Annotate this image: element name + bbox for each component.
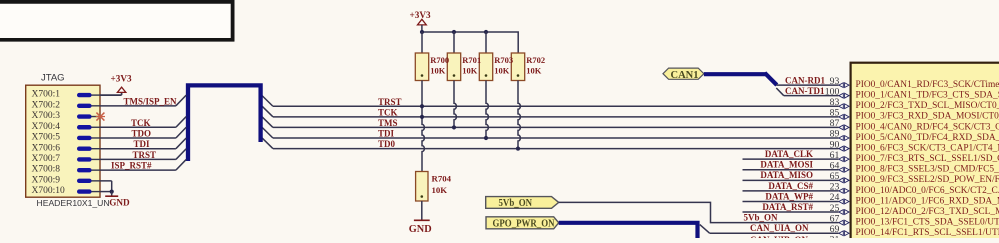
svg-text:PIO0_1/CAN1_TD/FC3_CTS_SDA_SSE: PIO0_1/CAN1_TD/FC3_CTS_SDA_SSEL0 bbox=[856, 91, 999, 101]
svg-text:+3V3: +3V3 bbox=[111, 74, 132, 84]
svg-text:X700:6: X700:6 bbox=[32, 143, 61, 153]
svg-text:21: 21 bbox=[830, 235, 840, 239]
svg-text:PIO0_11/ADC0_1/FC6_RXD_SDA_MOS: PIO0_11/ADC0_1/FC6_RXD_SDA_MOSI bbox=[856, 196, 999, 206]
svg-text:PIO0_10/ADC0_0/FC6_SCK/CT2_CAP: PIO0_10/ADC0_0/FC6_SCK/CT2_CAP0 bbox=[856, 186, 999, 196]
svg-text:PIO0_6/FC3_SCK/CT3_CAP1/CT4_MA: PIO0_6/FC3_SCK/CT3_CAP1/CT4_MAT0 bbox=[856, 143, 999, 153]
svg-text:TDI: TDI bbox=[134, 139, 151, 149]
svg-text:X700:7: X700:7 bbox=[32, 154, 61, 164]
svg-text:CAN-TD1: CAN-TD1 bbox=[785, 86, 825, 96]
svg-text:GND: GND bbox=[109, 198, 130, 208]
svg-text:DATA_RST#: DATA_RST# bbox=[762, 202, 813, 212]
svg-text:X700:10: X700:10 bbox=[32, 186, 66, 196]
svg-text:10K: 10K bbox=[430, 66, 446, 76]
svg-text:GPO_PWR_ON: GPO_PWR_ON bbox=[493, 219, 556, 230]
svg-text:CAN1: CAN1 bbox=[671, 70, 699, 81]
svg-text:CAN_UIB_ON: CAN_UIB_ON bbox=[750, 235, 809, 238]
svg-text:TDI: TDI bbox=[378, 129, 395, 139]
svg-text:TRST: TRST bbox=[133, 150, 157, 160]
svg-text:X700:1: X700:1 bbox=[32, 90, 61, 100]
svg-text:X700:9: X700:9 bbox=[32, 175, 61, 185]
svg-text:HEADER10X1_UN: HEADER10X1_UN bbox=[37, 198, 110, 208]
svg-text:R702: R702 bbox=[526, 55, 545, 65]
svg-text:ISP_RST#: ISP_RST# bbox=[111, 161, 152, 171]
svg-text:DATA_CLK: DATA_CLK bbox=[765, 149, 813, 159]
svg-text:PIO0_9/FC3_SSEL2/SD_POW_EN/FC5: PIO0_9/FC3_SSEL2/SD_POW_EN/FC5_T bbox=[856, 175, 999, 185]
svg-text:PIO0_0/CAN1_RD/FC3_SCK/CTimer0: PIO0_0/CAN1_RD/FC3_SCK/CTimer0_C bbox=[856, 80, 999, 90]
svg-text:CAN-RD1: CAN-RD1 bbox=[785, 75, 825, 85]
svg-text:X700:4: X700:4 bbox=[32, 122, 61, 132]
svg-text:X700:3: X700:3 bbox=[32, 111, 61, 121]
svg-text:X700:8: X700:8 bbox=[32, 165, 61, 175]
svg-text:TMS/ISP_EN: TMS/ISP_EN bbox=[124, 96, 178, 106]
svg-text:10K: 10K bbox=[462, 66, 478, 76]
svg-text:R701: R701 bbox=[462, 55, 481, 65]
svg-text:DATA_MISO: DATA_MISO bbox=[760, 170, 813, 180]
svg-text:PIO0_2/FC3_TXD_SCL_MISO/CT0_MA: PIO0_2/FC3_TXD_SCL_MISO/CT0_MAT0 bbox=[856, 101, 999, 111]
svg-text:JTAG: JTAG bbox=[41, 72, 65, 83]
svg-text:PIO0_4/CAN0_RD/FC4_SCK/CT3_CAP: PIO0_4/CAN0_RD/FC4_SCK/CT3_CAP0 bbox=[856, 122, 999, 132]
svg-text:R704: R704 bbox=[432, 173, 452, 183]
svg-text:TRST: TRST bbox=[378, 97, 402, 107]
svg-text:X700:5: X700:5 bbox=[32, 133, 61, 143]
svg-text:5Vb_ON: 5Vb_ON bbox=[499, 198, 533, 209]
svg-text:X700:2: X700:2 bbox=[32, 100, 61, 110]
svg-text:5Vb_ON: 5Vb_ON bbox=[744, 213, 779, 223]
svg-text:10K: 10K bbox=[526, 66, 542, 76]
svg-text:PIO0_7/FC3_RTS_SCL_SSEL1/SD_CL: PIO0_7/FC3_RTS_SCL_SSEL1/SD_CLK bbox=[856, 154, 999, 164]
svg-text:DATA_CS#: DATA_CS# bbox=[768, 181, 813, 191]
svg-text:+3V3: +3V3 bbox=[410, 10, 431, 20]
svg-text:PIO0_8/FC3_SSEL3/SD_CMD/FC5_RX: PIO0_8/FC3_SSEL3/SD_CMD/FC5_RXD bbox=[856, 165, 999, 175]
svg-text:TD0: TD0 bbox=[378, 139, 396, 149]
svg-text:CAN_UIA_ON: CAN_UIA_ON bbox=[750, 223, 809, 233]
svg-text:GND: GND bbox=[409, 224, 432, 235]
svg-text:PIO0_5/CAN0_TD/FC4_RXD_SDA_MOS: PIO0_5/CAN0_TD/FC4_RXD_SDA_MOSI bbox=[856, 133, 999, 143]
svg-text:R700: R700 bbox=[430, 55, 449, 65]
svg-text:PIO0_12/ADC0_2/FC3_TXD_SCL_MIS: PIO0_12/ADC0_2/FC3_TXD_SCL_MISO bbox=[856, 207, 999, 217]
svg-text:TCK: TCK bbox=[131, 118, 151, 128]
svg-text:TCK: TCK bbox=[378, 107, 398, 117]
svg-text:TMS: TMS bbox=[378, 118, 398, 128]
svg-text:DATA_MOSI: DATA_MOSI bbox=[760, 160, 813, 170]
svg-text:TDO: TDO bbox=[132, 128, 152, 138]
svg-text:PIO0_13/FC1_CTS_SDA_SSEL0/UTIC: PIO0_13/FC1_CTS_SDA_SSEL0/UTICK bbox=[856, 218, 999, 228]
svg-text:DATA_WP#: DATA_WP# bbox=[765, 191, 813, 201]
svg-text:PIO0_14/FC1_RTS_SCL_SSEL1/UTIC: PIO0_14/FC1_RTS_SCL_SSEL1/UTICK bbox=[856, 228, 999, 238]
svg-text:R703: R703 bbox=[494, 55, 513, 65]
svg-text:PIO0_3/FC3_RXD_SDA_MOSI/CT0_MA: PIO0_3/FC3_RXD_SDA_MOSI/CT0_MAT1 bbox=[856, 112, 999, 122]
svg-text:10K: 10K bbox=[494, 66, 510, 76]
svg-text:10K: 10K bbox=[432, 185, 448, 195]
